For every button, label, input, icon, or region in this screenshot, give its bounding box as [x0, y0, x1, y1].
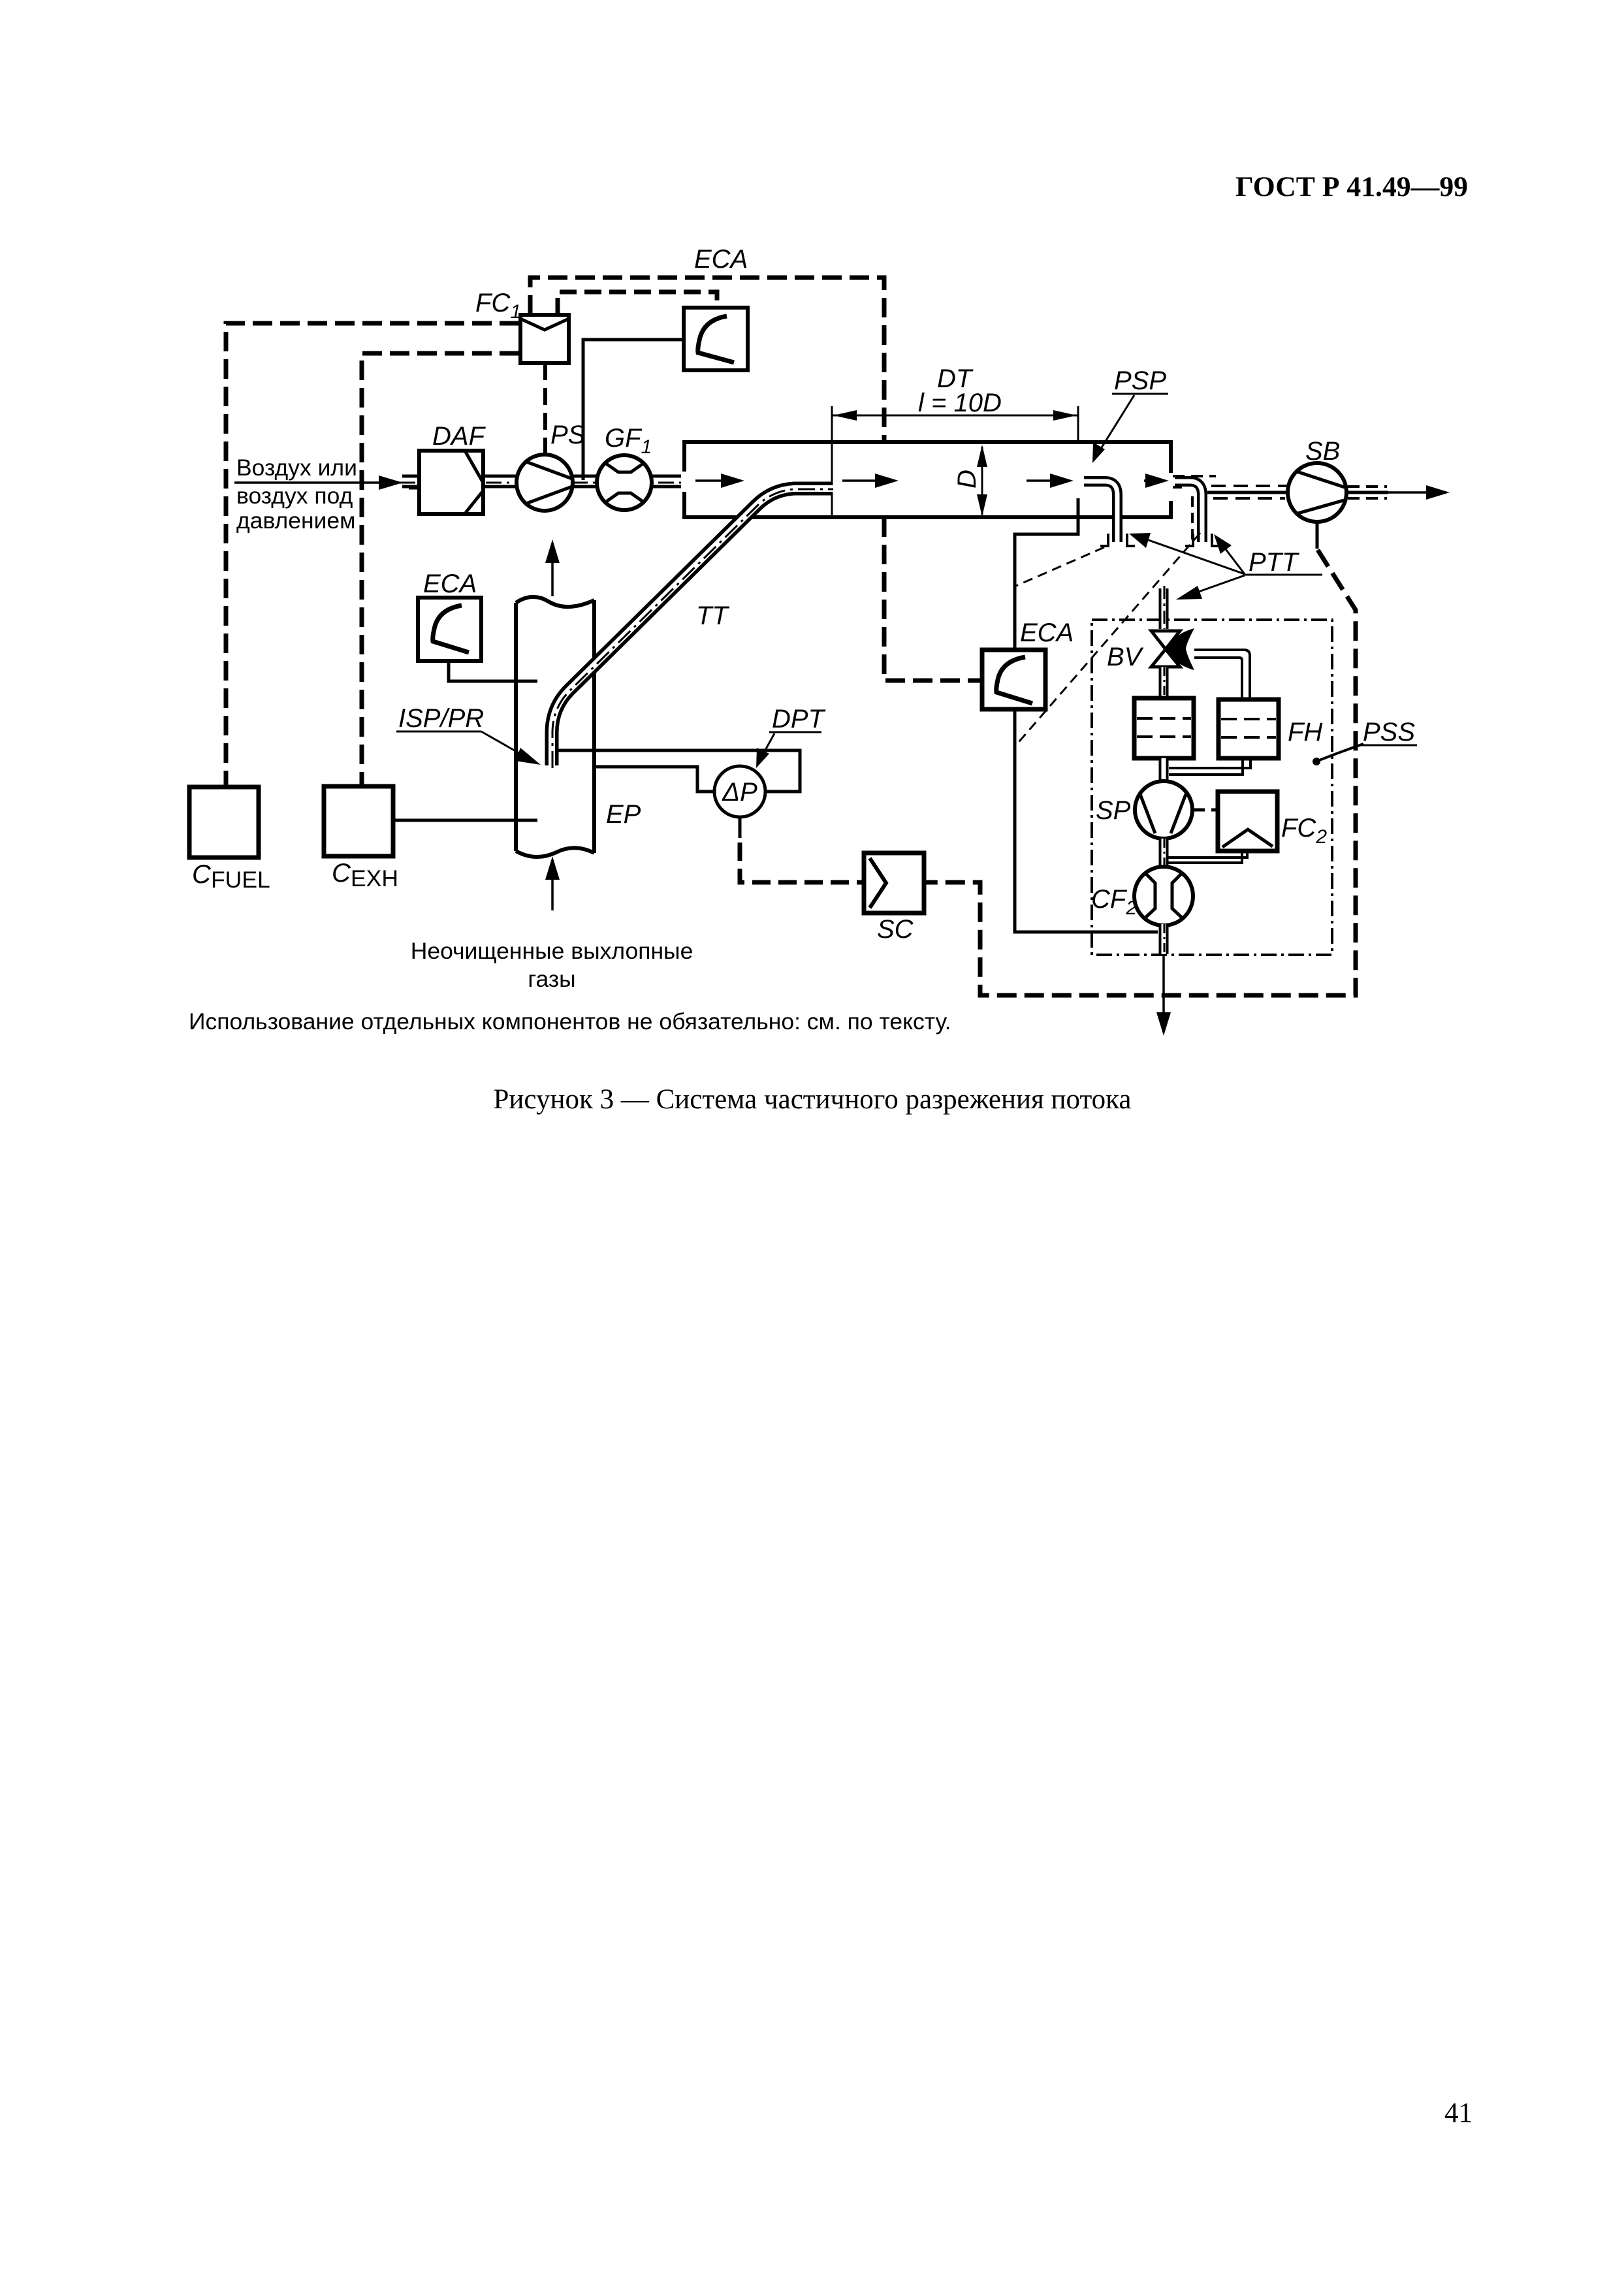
pump SP [1135, 781, 1192, 839]
transfer tube TT [552, 489, 833, 768]
svg-text:TT: TT [696, 602, 729, 630]
wire: thin dashed leader from probe 1 to ECA line [1016, 547, 1104, 586]
wire: solid line tunnel to ECA box (right) [1015, 498, 1078, 650]
svg-text:воздух под: воздух под [236, 483, 353, 509]
label ECA mid-left [423, 570, 477, 598]
flow meter GF1 [597, 455, 652, 510]
label DAF [432, 422, 486, 451]
label ECA top-center [694, 245, 748, 274]
wire: duct from tunnel to blower SB [1207, 486, 1289, 498]
label TT [696, 602, 729, 630]
svg-text:FUEL: FUEL [211, 867, 270, 893]
label GF1 [605, 424, 652, 458]
label DT [937, 364, 974, 393]
text: raw exhaust gases [411, 938, 693, 992]
wire: solid control line from top ECA box to pipe junction [583, 340, 684, 480]
svg-text:ECA: ECA [423, 570, 477, 598]
svg-text:Неочищенные выхлопные: Неочищенные выхлопные [411, 938, 693, 964]
svg-text:SC: SC [877, 915, 914, 944]
blower SB [1288, 463, 1346, 522]
svg-text:DPT: DPT [772, 705, 826, 733]
arrow: air inlet flow arrow [234, 475, 403, 490]
wire: main flow pipe (air inlet to dilution tunnel) [400, 481, 685, 483]
wire: thick dashed loop from SB down to bottom and to SC [924, 522, 1356, 995]
wire: outlet after SB with arrow [1346, 485, 1450, 500]
wire: dashed line FC1 left to C_FUEL [226, 323, 519, 786]
differential pressure transducer DPT circle [558, 750, 800, 817]
arrow: tunnel flow arrow 2 [842, 473, 899, 488]
dimension: tick left (tunnel section) [831, 406, 833, 517]
arrow: raw exhaust gas arrow below EP [545, 856, 560, 910]
dimension: D vertical arrow inside tunnel [977, 445, 987, 517]
wire: DPT to SC dashed signal line [740, 817, 863, 882]
wire: pipe CF2 to outlet [1164, 924, 1164, 954]
arrow: tunnel flow arrow 3 [1027, 473, 1074, 488]
label EP [606, 800, 641, 829]
svg-text:PSP: PSP [1114, 366, 1166, 395]
wire: dashed line FC1 left to C_EXH [362, 353, 519, 785]
label FH [1288, 718, 1322, 746]
svg-text:газы: газы [528, 966, 575, 992]
text: usage note [189, 1008, 951, 1035]
node: inlet pipe stub dashes [405, 476, 419, 488]
filter DAF [419, 451, 484, 514]
label C_FUEL [192, 860, 270, 893]
wire: ECA dashed control loop from FC1 top to ECA box (right) [530, 278, 981, 681]
flow controller FC2 [1218, 792, 1277, 851]
svg-text:EP: EP [606, 800, 641, 829]
label l = 10D [918, 389, 1002, 417]
wire: bypass from BV to FH right box [1194, 650, 1250, 698]
svg-text:C: C [192, 860, 212, 889]
label C_EXH [332, 859, 398, 891]
label DPT with leader arrow [756, 705, 826, 768]
label ISP/PR with leader arrow [396, 704, 541, 765]
label SC [877, 915, 914, 944]
svg-text:давлением: давлением [236, 507, 356, 534]
svg-text:C: C [332, 859, 351, 888]
indicator box ECA (top) [684, 308, 748, 370]
label delta-P inside DPT [722, 778, 757, 807]
text: header GOST [1235, 172, 1468, 202]
arrow: PSS outlet down arrow [1156, 955, 1171, 1036]
wire: pipe BV to heated filter FH [1164, 667, 1164, 699]
indicator box ECA (mid-left) [418, 598, 481, 661]
svg-text:DAF: DAF [432, 422, 486, 451]
svg-text:Рисунок 3 — Система частичного: Рисунок 3 — Система частичного разрежени… [494, 1084, 1132, 1115]
label FC2 [1281, 814, 1327, 848]
label CF2 [1091, 885, 1137, 919]
dimension: tick right [1077, 406, 1079, 441]
label PSP with leader arrow [1092, 366, 1168, 463]
svg-text:ECA: ECA [1020, 618, 1074, 647]
wire: pipe SP to CF2 [1164, 839, 1164, 868]
wire: PTT inlet pipe into PSS [1164, 586, 1164, 629]
label PS [550, 421, 586, 449]
wire: solid ECA line from box down and right to PSS pipe [1015, 709, 1158, 932]
heated filter FH left box [1134, 698, 1194, 758]
label PTT with three leader arrows [1129, 533, 1322, 600]
svg-text:Использование отдельных компон: Использование отдельных компонентов не о… [189, 1008, 951, 1035]
svg-text:EXH: EXH [351, 865, 398, 891]
analyzer box C_FUEL [189, 787, 259, 858]
wire: pipe FH to pump SP [1159, 758, 1169, 782]
label D rotated [953, 470, 981, 489]
heated filter FH right box [1218, 699, 1279, 758]
svg-text:D: D [953, 470, 981, 489]
svg-text:41: 41 [1444, 2098, 1473, 2128]
svg-text:BV: BV [1107, 643, 1144, 671]
pump PS [517, 455, 573, 511]
probe PTT second (at tunnel exit) [1172, 476, 1220, 546]
label ECA right [1020, 618, 1074, 647]
dimension: l=10D arrow line [832, 410, 1078, 421]
svg-text:FH: FH [1288, 718, 1322, 746]
label PSS with leader line and dot [1313, 718, 1417, 765]
label SB [1305, 437, 1340, 466]
flow controller FC1 [520, 315, 569, 363]
wire: dashed link SP to FC2 [1194, 809, 1217, 812]
svg-text:PSS: PSS [1363, 718, 1415, 746]
signal converter SC [864, 853, 924, 913]
svg-text:Воздух или: Воздух или [236, 455, 357, 481]
svg-text:PTT: PTT [1249, 548, 1299, 577]
text: figure caption [494, 1084, 1132, 1115]
svg-text:PS: PS [550, 421, 586, 449]
svg-text:l = 10D: l = 10D [918, 389, 1002, 417]
analyzer box C_EXH [324, 786, 393, 856]
text: page number 41 [1444, 2098, 1473, 2128]
wire: FH bottom bypass return to main pipe [1169, 758, 1250, 775]
valve BV [1151, 628, 1194, 670]
svg-text:ГОСТ Р 41.49—99: ГОСТ Р 41.49—99 [1235, 172, 1468, 202]
arrow: exhaust up arrow above EP [545, 539, 560, 596]
wire: dashed link FC1 to top ECA indicator box [558, 292, 717, 315]
arrow: tunnel flow arrow 1 [695, 473, 744, 488]
svg-text:SB: SB [1305, 437, 1340, 466]
label SP [1096, 796, 1131, 825]
dilution tunnel DT body [681, 442, 1175, 517]
svg-text:SP: SP [1096, 796, 1131, 825]
wire: dashed control line FC1 to pump PS [543, 363, 547, 453]
flow meter CF2 [1134, 867, 1193, 925]
label FC1 [475, 289, 521, 323]
controller boundary PSS dash-dot box [1092, 620, 1332, 955]
indicator box ECA (right) [982, 650, 1045, 709]
wire: C_EXH to EP connector [393, 819, 537, 822]
svg-text:ECA: ECA [694, 245, 748, 274]
svg-text:ISP/PR: ISP/PR [398, 704, 484, 733]
svg-text:ΔP: ΔP [722, 778, 757, 807]
arrow: tunnel flow arrow 4 [1144, 473, 1169, 488]
wire: thin dashed leader from probe 2 to ECA line [1015, 533, 1200, 746]
text: air inlet annotation [236, 455, 357, 534]
label BV [1107, 643, 1144, 671]
wire: FC2 bottom connector to pipe [1168, 851, 1247, 863]
wire: ECA box to EP connector [449, 661, 537, 681]
exhaust pipe EP stack [516, 597, 594, 857]
sample probe PSP (in tunnel) [1081, 481, 1135, 546]
